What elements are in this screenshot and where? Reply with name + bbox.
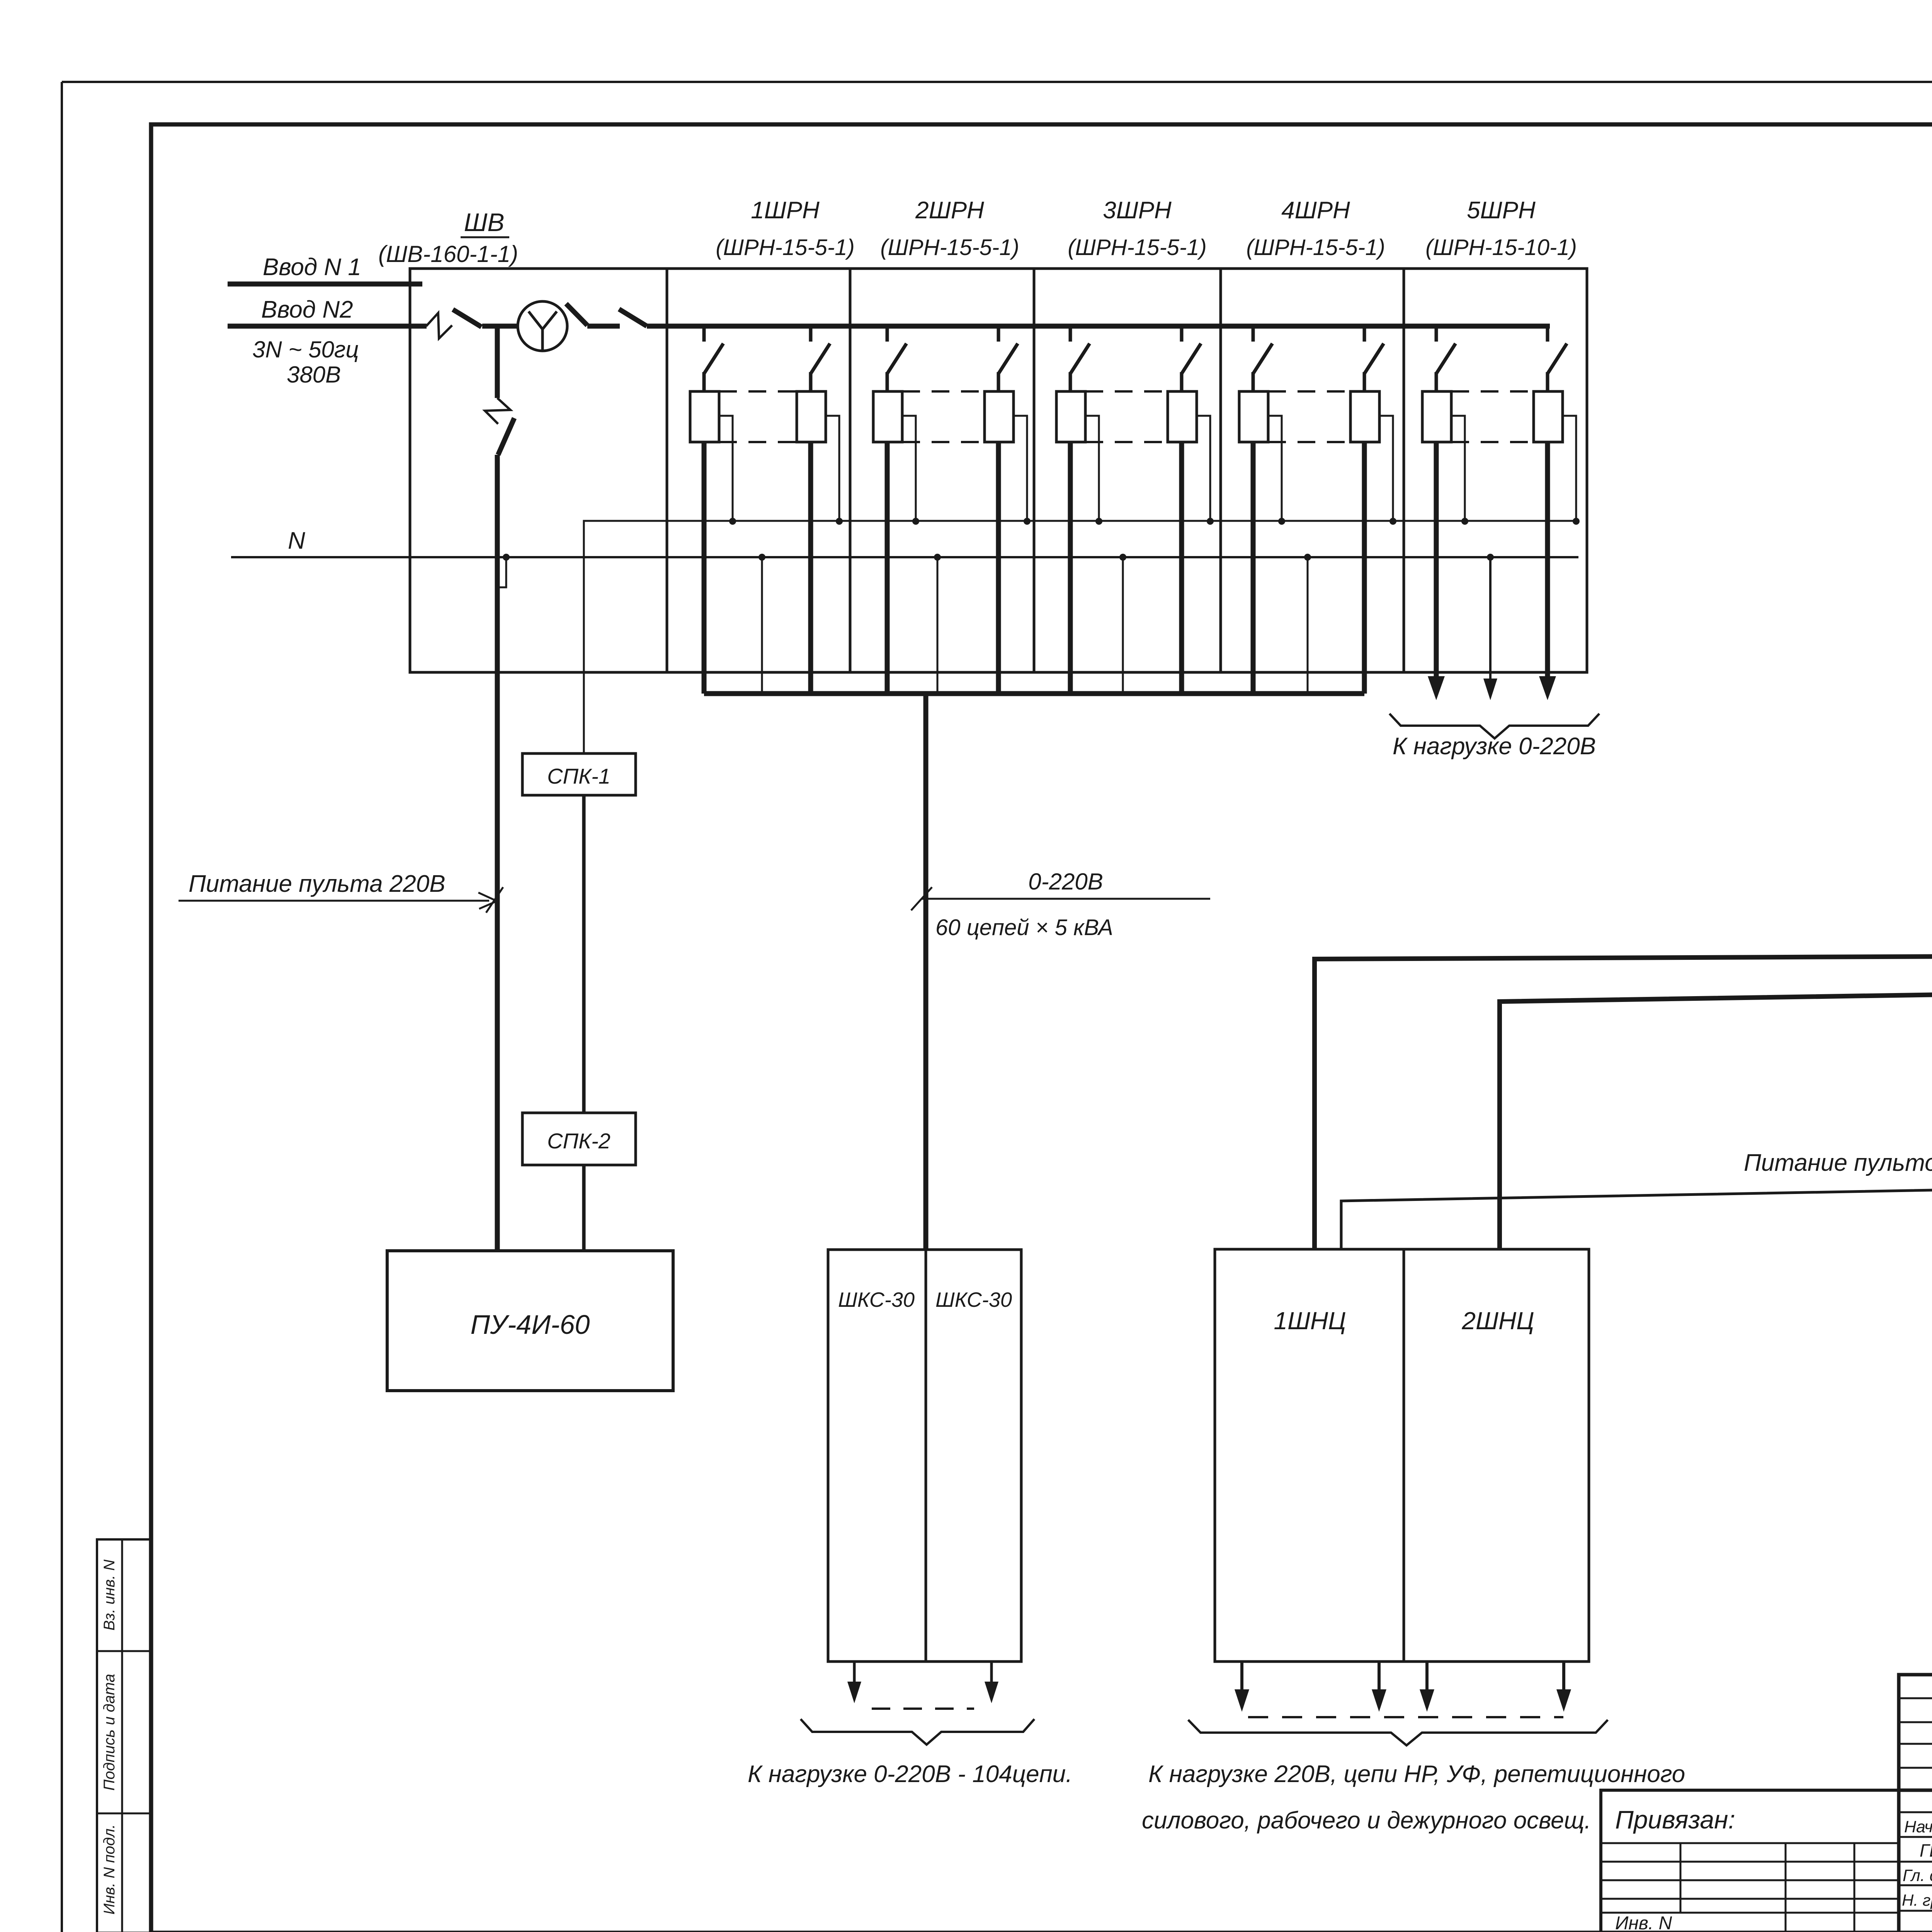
switch blade 2ШРН right bbox=[998, 344, 1018, 374]
load arrow ШКС right bbox=[985, 1662, 998, 1703]
divider ШНЦ boxes bbox=[1403, 1249, 1405, 1662]
feeder output arrow 5ШРН right bbox=[1539, 442, 1556, 700]
junction coil-N 5ШРН left bbox=[1461, 518, 1468, 525]
cabinet 5ШРН bbox=[1404, 269, 1587, 672]
svg-text:Вз. инв. N: Вз. инв. N bbox=[101, 1560, 118, 1631]
svg-text:60 цепей × 5 кВА: 60 цепей × 5 кВА bbox=[935, 915, 1113, 940]
leader line to desk feed bbox=[179, 900, 489, 902]
junction coil-N 2ШРН left bbox=[912, 518, 919, 525]
title grid row thin bbox=[1899, 1697, 1932, 1699]
switch blade 4ШРН left bbox=[1253, 344, 1272, 374]
svg-text:N: N bbox=[288, 527, 305, 554]
N tap arrow 5ШРН bbox=[1483, 557, 1497, 700]
title left row line bbox=[1601, 1879, 1899, 1881]
svg-text:Привязан:: Привязан: bbox=[1615, 1805, 1735, 1834]
switch blade 3ШРН left bbox=[1070, 344, 1090, 374]
switch blade 5ШРН right bbox=[1548, 344, 1567, 374]
divider ШКС boxes bbox=[925, 1250, 927, 1662]
switch blade QS2 bbox=[566, 304, 587, 325]
contactor coil return 5ШРН left bbox=[1451, 416, 1465, 519]
box СПК-2 bbox=[522, 1113, 636, 1165]
feeder output 2ШРН left bbox=[885, 442, 890, 694]
cabinet 1ШРН bbox=[667, 269, 850, 672]
label underline 0-220В bbox=[921, 898, 1210, 900]
svg-text:СПК-1: СПК-1 bbox=[547, 764, 611, 788]
staff column row line 2 bbox=[97, 1813, 151, 1815]
feeder output 1ШРН left bbox=[702, 442, 707, 694]
names row line 2 bbox=[1899, 1884, 1932, 1886]
svg-text:3ШРН: 3ШРН bbox=[1103, 197, 1172, 224]
feeder stub 3ШРН left bbox=[1069, 326, 1072, 342]
switch blade 4ШРН right bbox=[1364, 344, 1384, 374]
title grid row thin bbox=[1899, 1721, 1932, 1723]
svg-text:ШКС-30: ШКС-30 bbox=[935, 1288, 1012, 1311]
wire СПК-1 to СПК-2 bbox=[582, 795, 586, 1113]
interlock dashed link top bbox=[719, 390, 797, 393]
wire QF2 to 2ШНЦ bbox=[1500, 480, 1932, 1249]
load arrow ШНЦ x=3214 bbox=[1235, 1662, 1249, 1712]
cable break symbol on Ввод N2 bbox=[426, 313, 452, 338]
switch blade 1ШРН left bbox=[704, 344, 723, 374]
svg-text:ГИП: ГИП bbox=[1920, 1840, 1932, 1861]
load arrow ШНЦ x=3693 bbox=[1420, 1662, 1434, 1712]
leader arrowhead bbox=[478, 887, 503, 913]
coil return N bus bbox=[584, 521, 1577, 753]
feeder stub 5ШРН right bbox=[1546, 326, 1549, 342]
feeder stub 2ШРН right bbox=[997, 326, 1000, 342]
title block left part bbox=[1601, 1790, 1899, 1932]
title left row line bbox=[1601, 1912, 1899, 1914]
contactor KM 3ШРН right bbox=[1168, 391, 1197, 442]
title left row line bbox=[1601, 1898, 1899, 1900]
wire blade to contactor 1ШРН right bbox=[809, 372, 813, 391]
svg-text:К нагрузке 220В, цепи НР, УФ,: К нагрузке 220В, цепи НР, УФ, репетицион… bbox=[1148, 1761, 1685, 1787]
load arrow ШНЦ x=4047 bbox=[1556, 1662, 1571, 1712]
title left row line bbox=[1601, 1842, 1899, 1844]
svg-text:Подпись и дата: Подпись и дата bbox=[101, 1674, 118, 1791]
title grid row thin bbox=[1899, 1836, 1932, 1838]
wire Ввод N1 bbox=[228, 282, 422, 287]
contactor KM 5ШРН right bbox=[1534, 391, 1563, 442]
contactor KM 4ШРН left bbox=[1239, 391, 1268, 442]
svg-text:Н. гр. ин.: Н. гр. ин. bbox=[1902, 1891, 1932, 1909]
title left col line 2 bbox=[1785, 1843, 1787, 1932]
switch blade QS3 bbox=[619, 309, 647, 326]
contactor KM 5ШРН left bbox=[1422, 391, 1451, 442]
interlock dashed link bottom bbox=[1085, 441, 1168, 443]
switch blade QS1 bbox=[453, 310, 481, 327]
feeder output 3ШРН left bbox=[1068, 442, 1073, 694]
svg-text:(ШРН-15-5-1): (ШРН-15-5-1) bbox=[716, 235, 855, 260]
svg-text:(ШРН-15-5-1): (ШРН-15-5-1) bbox=[1246, 235, 1385, 260]
junction coil-N 3ШРН left bbox=[1095, 518, 1102, 525]
svg-text:Инв. N: Инв. N bbox=[1615, 1913, 1672, 1932]
feeder stub 4ШРН right bbox=[1363, 326, 1366, 342]
svg-text:1ШРН: 1ШРН bbox=[751, 197, 820, 224]
contactor coil return 3ШРН left bbox=[1085, 416, 1099, 519]
svg-text:380В: 380В bbox=[287, 362, 341, 388]
meter (Y) bbox=[518, 301, 567, 351]
junction N tap 5ШРН bbox=[1487, 554, 1494, 561]
wire blade to contactor 4ШРН right bbox=[1363, 372, 1366, 391]
switch blade ШВ feeder bbox=[498, 418, 514, 455]
junction N to desk feed bbox=[503, 554, 510, 561]
svg-text:ПУ-4И-60: ПУ-4И-60 bbox=[471, 1310, 590, 1340]
svg-text:(ШВ-160-1-1): (ШВ-160-1-1) bbox=[378, 241, 518, 267]
feeder stub 1ШРН left bbox=[702, 326, 706, 342]
wire blade to contactor 5ШРН left bbox=[1435, 372, 1438, 391]
feeder output 4ШРН right bbox=[1362, 442, 1367, 694]
cabinet 4ШРН bbox=[1221, 269, 1404, 672]
cable break symbol on tap bbox=[485, 398, 510, 424]
wire blade to contactor 2ШРН right bbox=[997, 372, 1000, 391]
N tap wire 4ШРН bbox=[1307, 557, 1309, 694]
interlock dashed link bottom bbox=[1268, 441, 1350, 443]
load arrow ШНЦ x=3569 bbox=[1372, 1662, 1386, 1712]
wire blade to contactor 4ШРН left bbox=[1252, 372, 1255, 391]
svg-text:ШВ: ШВ bbox=[464, 208, 505, 236]
contactor coil return 1ШРН left bbox=[719, 416, 733, 519]
junction N tap 2ШРН bbox=[934, 554, 941, 561]
svg-text:1ШНЦ: 1ШНЦ bbox=[1274, 1307, 1346, 1335]
svg-text:Нач. отд.: Нач. отд. bbox=[1904, 1818, 1932, 1836]
switch blade 1ШРН right bbox=[811, 344, 830, 374]
svg-text:Питание пульта 220В: Питание пульта 220В bbox=[189, 871, 446, 897]
svg-text:Гл. спец.: Гл. спец. bbox=[1903, 1866, 1932, 1885]
contactor KM 2ШРН left bbox=[873, 391, 902, 442]
cabinet 3ШРН bbox=[1034, 269, 1221, 672]
svg-text:(ШРН-15-10-1): (ШРН-15-10-1) bbox=[1425, 235, 1577, 260]
svg-text:К нагрузке 0-220В: К нагрузке 0-220В bbox=[1393, 733, 1596, 760]
title grid row thin bbox=[1899, 1811, 1932, 1813]
title left col line 3 bbox=[1854, 1843, 1855, 1932]
interlock dashed link bottom bbox=[902, 441, 985, 443]
collected 0-220V load bus bbox=[704, 691, 1364, 696]
switch blade 2ШРН left bbox=[887, 344, 906, 374]
load arrow ШКС left bbox=[847, 1662, 861, 1703]
wire blade to contactor 2ШРН left bbox=[886, 372, 889, 391]
feeder stub 4ШРН left bbox=[1252, 326, 1255, 342]
switch blade 3ШРН right bbox=[1182, 344, 1201, 374]
N bus wire bbox=[231, 556, 1578, 558]
feeder stub 2ШРН left bbox=[886, 326, 889, 342]
contactor KM 1ШРН left bbox=[690, 391, 719, 442]
outer border top bbox=[62, 81, 1932, 83]
svg-text:Ввод N2: Ввод N2 bbox=[261, 296, 353, 323]
N hook to desk feed bbox=[499, 557, 506, 587]
svg-text:4ШРН: 4ШРН bbox=[1281, 197, 1350, 224]
interlock dashed link top bbox=[1085, 390, 1168, 393]
interlock dashed link top bbox=[1268, 390, 1350, 393]
main 380V bus bbox=[647, 324, 1550, 329]
wire пульты feed with drop to 1ПУ bbox=[1341, 1187, 1932, 1249]
outer border left bbox=[61, 82, 63, 1932]
junction coil-N 4ШРН right bbox=[1389, 518, 1396, 525]
cabinet ШВ bbox=[410, 269, 667, 672]
contactor KM 4ШРН right bbox=[1350, 391, 1379, 442]
junction coil-N 3ШРН right bbox=[1207, 518, 1214, 525]
contactor coil return 3ШРН right bbox=[1197, 416, 1210, 519]
svg-text:силового, рабочего и дежурного: силового, рабочего и дежурного освещ. bbox=[1142, 1807, 1591, 1834]
svg-text:2ШНЦ: 2ШНЦ bbox=[1461, 1307, 1534, 1335]
switch blade 5ШРН left bbox=[1436, 344, 1456, 374]
dashed load link ШКС bbox=[872, 1708, 974, 1710]
separator above name cell bbox=[1899, 1789, 1932, 1792]
feeder output 3ШРН right bbox=[1179, 442, 1184, 694]
feeder output 1ШРН right bbox=[808, 442, 813, 694]
contactor coil return 4ШРН left bbox=[1268, 416, 1282, 519]
wire blade to contactor 1ШРН left bbox=[702, 372, 706, 391]
brace under ШНЦ bbox=[1188, 1720, 1608, 1745]
svg-text:3N ~ 50гц: 3N ~ 50гц bbox=[252, 337, 359, 362]
svg-text:Инв. N подл.: Инв. N подл. bbox=[101, 1824, 118, 1915]
svg-text:ШКС-30: ШКС-30 bbox=[838, 1288, 915, 1311]
feeder stub 1ШРН right bbox=[809, 326, 813, 342]
contactor coil return 4ШРН right bbox=[1379, 416, 1393, 519]
wire Питание пульта 220В to ПУ-4И-60 bbox=[495, 455, 500, 1251]
junction coil-N 2ШРН right bbox=[1024, 518, 1031, 525]
svg-text:СПК-2: СПК-2 bbox=[547, 1129, 611, 1153]
N tap wire 2ШРН bbox=[937, 557, 939, 694]
junction N tap 1ШРН bbox=[759, 554, 765, 561]
contactor KM 2ШРН right bbox=[985, 391, 1014, 442]
svg-text:2ШРН: 2ШРН bbox=[915, 197, 984, 224]
dashed load link ШНЦ bbox=[1248, 1716, 1563, 1718]
box СПК-1 bbox=[522, 753, 636, 795]
names row line 3 bbox=[1899, 1910, 1932, 1912]
box ШКС-30 pair bbox=[828, 1250, 1021, 1662]
contactor coil return 1ШРН right bbox=[826, 416, 839, 519]
junction coil-N 4ШРН left bbox=[1278, 518, 1285, 525]
interlock dashed link top bbox=[1451, 390, 1534, 393]
feeder output 4ШРН left bbox=[1251, 442, 1256, 694]
contactor KM 1ШРН right bbox=[797, 391, 826, 442]
N tap wire 3ШРН bbox=[1122, 557, 1124, 694]
wire between switches bbox=[587, 324, 620, 329]
svg-text:К нагрузке 0-220В - 104цепи.: К нагрузке 0-220В - 104цепи. bbox=[748, 1761, 1072, 1787]
wire СПК-2 to ПУ-4И-60 bbox=[582, 1165, 586, 1251]
cabinet 2ШРН bbox=[850, 269, 1034, 672]
feeder stub 5ШРН left bbox=[1435, 326, 1438, 342]
title left col line 1 bbox=[1680, 1843, 1682, 1913]
wire switch to meter bbox=[482, 324, 518, 329]
junction coil-N 1ШРН left bbox=[729, 518, 736, 525]
junction coil-N 5ШРН right bbox=[1573, 518, 1580, 525]
svg-text:(ШРН-15-5-1): (ШРН-15-5-1) bbox=[1068, 235, 1207, 260]
junction coil-N 1ШРН right bbox=[836, 518, 843, 525]
feeder stub 3ШРН right bbox=[1180, 326, 1184, 342]
wire Ввод N2 left bbox=[228, 324, 427, 329]
interlock dashed link bottom bbox=[1451, 441, 1534, 443]
box ШНЦ pair bbox=[1215, 1249, 1589, 1662]
junction N tap 3ШРН bbox=[1119, 554, 1126, 561]
brace under ШКС bbox=[801, 1719, 1034, 1745]
svg-text:5ШРН: 5ШРН bbox=[1467, 197, 1536, 224]
names row line 1 bbox=[1899, 1861, 1932, 1863]
wire blade to contactor 3ШРН left bbox=[1069, 372, 1072, 391]
title block main part bbox=[1899, 1675, 1932, 1932]
wire QF1 to 1ШНЦ bbox=[1315, 480, 1932, 1249]
contactor coil return 2ШРН right bbox=[1014, 416, 1027, 519]
wire ШВ tap down bbox=[495, 326, 500, 398]
staff column box bbox=[97, 1539, 151, 1932]
junction N tap 4ШРН bbox=[1304, 554, 1311, 561]
svg-text:0-220В: 0-220В bbox=[1028, 869, 1103, 895]
title grid row thin bbox=[1899, 1767, 1932, 1769]
svg-text:Питание пультов 220В: Питание пультов 220В bbox=[1744, 1150, 1932, 1176]
svg-text:(ШРН-15-5-1): (ШРН-15-5-1) bbox=[880, 235, 1019, 260]
staff column divider bbox=[121, 1539, 123, 1932]
title left row line bbox=[1601, 1861, 1899, 1863]
wire blade to contactor 3ШРН right bbox=[1180, 372, 1184, 391]
contactor coil return 2ШРН left bbox=[902, 416, 916, 519]
contactor coil return 5ШРН right bbox=[1563, 416, 1576, 519]
interlock dashed link bottom bbox=[719, 441, 797, 443]
brace К нагрузке 0-220В bbox=[1389, 714, 1599, 738]
contactor KM 3ШРН left bbox=[1056, 391, 1085, 442]
staff column row line 1 bbox=[97, 1650, 151, 1652]
svg-text:Ввод N 1: Ввод N 1 bbox=[263, 254, 361, 281]
N tap wire 1ШРН bbox=[761, 557, 763, 694]
drop wire to ШКС-30 bbox=[923, 694, 929, 1250]
box ПУ-4И-60 bbox=[387, 1251, 673, 1391]
title grid row at 4513 bbox=[1899, 1743, 1932, 1745]
feeder output 2ШРН right bbox=[996, 442, 1001, 694]
tick on drop wire bbox=[911, 887, 932, 910]
interlock dashed link top bbox=[902, 390, 985, 393]
wire blade to contactor 5ШРН right bbox=[1546, 372, 1549, 391]
feeder output arrow 5ШРН left bbox=[1428, 442, 1445, 700]
